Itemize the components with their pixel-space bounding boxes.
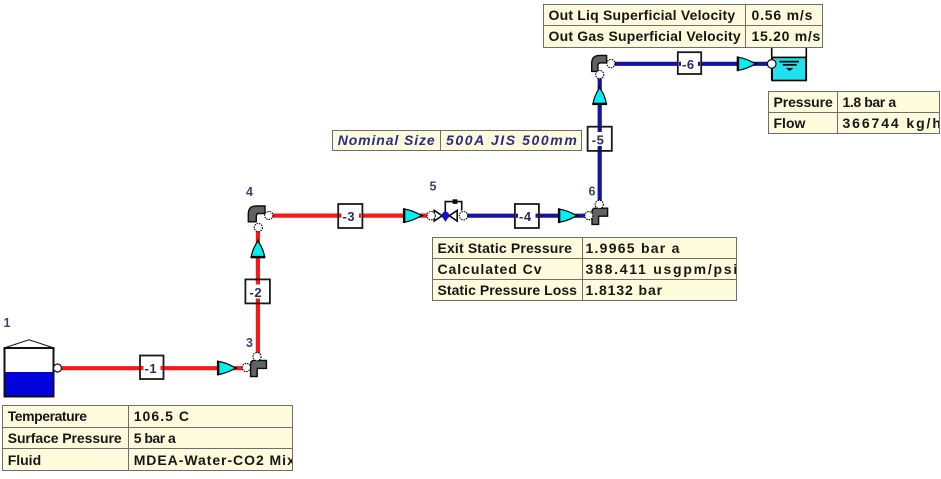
liquid level mark [779, 61, 799, 63]
pipe -1 (red, tank to elbow 3) [58, 366, 246, 370]
node circle valve-left [427, 212, 435, 220]
flow arrow on pipe -3 [403, 208, 423, 223]
svg-text:3: 3 [246, 336, 253, 350]
valve left triangle [434, 210, 442, 221]
pipe -4 label box [515, 204, 539, 228]
table: valve results [432, 237, 737, 301]
table: nominal size label [332, 130, 582, 151]
flow arrow on pipe -1 [217, 361, 237, 376]
tank T2 (discharge, open top) [772, 47, 807, 81]
valve blue plug [442, 212, 450, 220]
control valve U5 [434, 199, 462, 222]
svg-text:-1: -1 [145, 361, 158, 376]
pipe -3 (red, elbow4 to valve 5) [269, 214, 431, 218]
node circle elbow3-horizontal [242, 363, 250, 371]
flow arrow on pipe -6 [737, 56, 757, 71]
pipe -1 label box [140, 356, 164, 380]
pipe -4 (blue, valve to elbow 6) [464, 214, 588, 218]
flow arrow on pipe -5 (up) [592, 87, 607, 105]
svg-text:-2: -2 [250, 285, 263, 300]
elbow 3 (gray L fitting) [251, 360, 267, 376]
pipe -5 (blue, vertical elbow6 to top elbow) [598, 75, 602, 204]
svg-text:6: 6 [589, 185, 596, 199]
pipe -3 label box [338, 204, 362, 228]
node circle elbow4-bottom [254, 224, 262, 232]
pipe -2 label box [245, 279, 270, 303]
top elbow (gray curved fitting) [592, 55, 607, 71]
node circle elbow4-right [265, 211, 273, 219]
svg-text:-4: -4 [519, 209, 532, 224]
pipe -6 label box [678, 52, 701, 74]
elbow 4 (gray curved fitting) [248, 206, 265, 222]
node circle elbow3-vertical [253, 353, 261, 361]
table: tank T1 conditions [2, 405, 293, 471]
svg-text:5: 5 [430, 180, 437, 194]
node circle at tank T1 outlet [54, 364, 62, 372]
node circle at tank T2 inlet [767, 60, 776, 69]
svg-text:-3: -3 [343, 209, 356, 224]
flow arrow on pipe -4 [558, 208, 578, 223]
table: outlet velocities [543, 4, 823, 48]
pipe -6 (blue, top elbow to tank T2) [611, 62, 770, 66]
svg-text:4: 4 [246, 185, 253, 199]
node circle valve-right [459, 212, 467, 220]
actuator bracket [445, 202, 461, 212]
valve right triangle [449, 210, 457, 221]
node circle top-elbow-right [607, 60, 615, 68]
svg-text:-6: -6 [682, 57, 695, 72]
svg-text:-5: -5 [592, 132, 605, 147]
flow arrow on pipe -2 (up) [251, 240, 266, 258]
elbow 6 (gray L fitting) [592, 208, 608, 224]
table: tank T2 pressure/flow [768, 91, 940, 135]
node circle elbow6-left [585, 212, 593, 220]
pipe -5 label box [588, 127, 612, 151]
pipe -2 (red, vertical elbow3 to elbow4) [256, 228, 260, 357]
node circle top-elbow-bottom [596, 71, 604, 79]
svg-text:1: 1 [4, 316, 11, 330]
actuator square [453, 199, 458, 204]
tank T1 (node 1) [4, 340, 54, 397]
node circle elbow6-top [595, 200, 603, 208]
